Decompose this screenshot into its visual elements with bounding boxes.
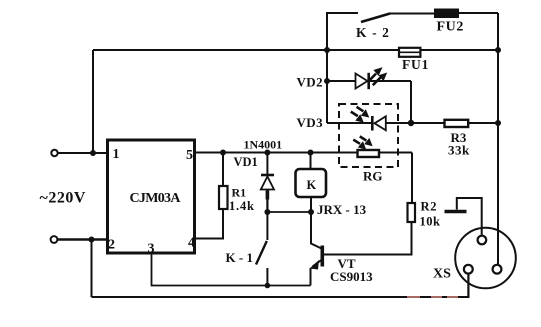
wire: terminal 2 to IC pin 2 bbox=[58, 238, 107, 240]
diode VD1 (points up, cathode bar on top) bbox=[266, 153, 268, 175]
IC U1 CJM03A bbox=[108, 140, 195, 253]
wire: main line from pin 5, y=152.5 across to x=412 bbox=[195, 152, 413, 154]
node: VD1 top junction bbox=[264, 150, 270, 156]
socket pin top bbox=[478, 236, 487, 245]
resistor R2 bbox=[408, 203, 416, 222]
svg-text:JRX - 13: JRX - 13 bbox=[317, 202, 367, 217]
fuse FU2 (solid) bbox=[434, 9, 459, 19]
node: junction dot at (91.5,239.5) bbox=[89, 237, 95, 243]
svg-text:VD2: VD2 bbox=[297, 75, 323, 90]
node: junction R3 line / right rail bbox=[495, 120, 501, 126]
svg-text:R2: R2 bbox=[421, 200, 438, 214]
wire: terminal 1 to IC pin 1 bbox=[58, 152, 107, 154]
svg-text:5: 5 bbox=[186, 148, 193, 163]
socket pin right bbox=[493, 265, 502, 274]
emitter with arrow bbox=[313, 260, 323, 267]
probe plug symbol above XS bbox=[457, 198, 482, 236]
node: junction top rail / VD2 vertical bbox=[324, 47, 330, 53]
svg-text:CS9013: CS9013 bbox=[330, 269, 373, 284]
VD2 emission arrows bbox=[369, 74, 381, 86]
wire: left vertical x=93 from top rail down to terminal 1 wire bbox=[92, 50, 94, 153]
svg-text:K: K bbox=[307, 178, 317, 192]
node: VD1 bottom junction bbox=[264, 209, 270, 215]
node: junction dot at (93,153) bbox=[90, 150, 96, 156]
node: relay top junction bbox=[308, 150, 314, 156]
svg-text:33k: 33k bbox=[448, 143, 470, 158]
svg-text:1: 1 bbox=[113, 147, 120, 162]
socket XS bbox=[455, 228, 516, 289]
svg-text:R1: R1 bbox=[232, 186, 247, 200]
optocoupler dashed box bbox=[339, 104, 398, 167]
svg-text:XS: XS bbox=[433, 267, 451, 282]
svg-text:K - 2: K - 2 bbox=[356, 25, 390, 40]
svg-text:4: 4 bbox=[188, 236, 195, 251]
wire: R1 bottom lead to IC pin 4 bbox=[195, 209, 224, 239]
svg-text:VD1: VD1 bbox=[234, 155, 258, 169]
wire: R2 upper feed, down from corner (412,152.5) bbox=[411, 153, 413, 204]
svg-text:RG: RG bbox=[363, 169, 383, 184]
relay coil K (JRX-13) bbox=[310, 153, 312, 170]
switch K-2 with fuse FU2 branch bbox=[327, 13, 358, 50]
wire: bottom rail y=297 bbox=[92, 274, 469, 298]
svg-text:2: 2 bbox=[108, 238, 115, 253]
node: relay bottom junction bbox=[308, 209, 314, 215]
base wire to R2 bottom bbox=[324, 222, 412, 255]
wire: R1 top lead bbox=[222, 153, 224, 187]
wire from left pin to bottom rail (drawn under pins) bbox=[467, 273, 469, 297]
socket pin left bbox=[464, 265, 473, 274]
svg-text:10k: 10k bbox=[420, 215, 441, 229]
wire: left vertical down to bottom rail bbox=[91, 240, 93, 298]
wire: scan-tinted segments on bottom rail bbox=[407, 296, 458, 298]
terminal upper (~220V live) bbox=[51, 150, 57, 156]
switch K-1 bbox=[266, 212, 268, 240]
resistor R3 bbox=[445, 120, 469, 127]
svg-text:VD3: VD3 bbox=[297, 115, 324, 130]
svg-text:~220V: ~220V bbox=[40, 190, 86, 207]
svg-text:K - 1: K - 1 bbox=[226, 250, 253, 265]
fuse FU1 on top rail bbox=[399, 48, 420, 57]
svg-text:1N4001: 1N4001 bbox=[244, 138, 283, 152]
collector wire from relay bottom node bbox=[311, 212, 322, 249]
node: junction top rail / right rail bbox=[495, 47, 501, 53]
svg-text:FU2: FU2 bbox=[437, 20, 464, 35]
RG receiving arrows bbox=[353, 136, 366, 143]
wire: right rail x=498 from FU2 corner down into socket bbox=[497, 13, 499, 265]
node: VD2 junction bbox=[324, 78, 330, 84]
photodiode VD3 (receiving, points left) bbox=[327, 122, 371, 124]
node: junction VD2/VD3 lines bbox=[408, 120, 414, 126]
resistor R1 bbox=[219, 186, 228, 209]
base bar bbox=[320, 246, 324, 267]
VD3 receiving arrows bbox=[351, 107, 364, 116]
wire: VD1 bottom to relay bottom, y=212 bbox=[267, 211, 311, 213]
wire: top rail y=50 from left vertical to right rail bbox=[93, 49, 498, 51]
LED VD2 (emitting, points right) bbox=[327, 80, 356, 82]
wire: VD2 output down to R3 line bbox=[410, 81, 412, 123]
wire: IC pin 3 down and right to emitter bbox=[152, 253, 311, 286]
wire: vertical x=327 from top rail to VD3 line bbox=[326, 50, 328, 123]
node: junction on pin3 line bbox=[265, 283, 271, 289]
terminal lower (~220V neutral) bbox=[51, 236, 58, 243]
node: R1 top junction bbox=[220, 150, 226, 156]
photoresistor RG bbox=[358, 150, 380, 157]
svg-text:1.4k: 1.4k bbox=[229, 199, 255, 213]
svg-text:FU1: FU1 bbox=[402, 57, 429, 72]
svg-text:CJM03A: CJM03A bbox=[130, 191, 182, 206]
